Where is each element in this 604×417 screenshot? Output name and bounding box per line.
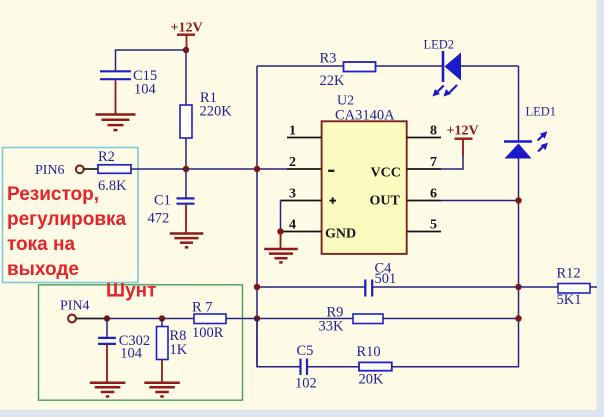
label shunt (red) [106,281,156,302]
node R9 left [254,315,260,321]
bottom page strip [0,410,604,417]
svg-text:5K1: 5K1 [557,292,582,308]
svg-text:7: 7 [430,155,437,170]
wire R8 top [161,319,163,327]
svg-text:тока на: тока на [7,234,75,255]
wire R9 row left [257,318,353,320]
ground under C15 [96,115,136,131]
svg-text:1K: 1K [170,342,188,358]
node left rail pin2 [254,166,260,172]
wire R3 to LED2 [376,65,443,67]
node R9 right [515,315,521,321]
resistor R2 [98,149,131,194]
svg-text:3: 3 [289,187,296,202]
capacitor C5 [295,343,317,392]
svg-text:R 7: R 7 [192,300,213,316]
node R8 [159,315,165,321]
pin 2 stub [287,168,322,170]
wire LED2 to right corner [461,65,519,67]
svg-text:LED2: LED2 [424,38,455,52]
wire PIN4 node to R7 [107,318,194,320]
pin 2 label [289,155,296,170]
resistor R3 [320,51,376,90]
svg-text:C1: C1 [154,193,171,209]
node C4 left [254,284,260,290]
svg-text:выходе: выходе [7,259,79,280]
wire C15 to ground [115,80,117,113]
svg-text:501: 501 [375,271,397,287]
svg-text:R3: R3 [320,51,337,67]
svg-text:PIN6: PIN6 [35,163,65,178]
svg-text:104: 104 [134,82,157,98]
pin 7 stub [407,155,441,170]
wire pin3 down to pin4 [280,201,282,232]
wire top rail y=65 [257,65,343,67]
wire C302 down [106,319,108,338]
wire R12 right stub [590,286,597,288]
svg-text:100R: 100R [192,325,224,341]
svg-text:+12V: +12V [447,124,479,139]
svg-text:U2: U2 [337,94,354,109]
wire C15 top [116,50,187,71]
wire node to ground [280,232,282,249]
svg-text:R12: R12 [557,266,581,282]
svg-text:22K: 22K [320,73,346,89]
wire rail to R12 [519,286,559,288]
node junction +12V [183,47,189,53]
wire R2 to U2 pin2 [131,168,287,170]
svg-text:R10: R10 [357,344,381,360]
pin 8 stub [407,124,441,139]
pin PIN6 [35,163,84,178]
wire right rail [518,66,520,142]
wire C5 to R10 [308,366,359,368]
svg-text:8: 8 [430,124,437,139]
wire C4 row right [373,286,519,288]
ground under C1 [170,234,204,248]
node C4 right [515,284,521,290]
svg-text:OUT: OUT [370,194,401,209]
wire pin7 to +12V [441,155,463,169]
capacitor C1 [148,193,195,227]
svg-text:1: 1 [289,124,296,139]
wire R7 to left rail [226,318,257,320]
svg-text:33K: 33K [319,319,345,335]
capacitor C15 [100,68,157,98]
svg-text:4: 4 [289,218,296,233]
wire PIN4 to R7 [76,318,107,320]
svg-text:VCC: VCC [371,166,401,181]
wire C302 to ground [106,345,108,382]
svg-text:Шунт: Шунт [106,281,156,302]
power +12V at pin7 [447,124,479,157]
svg-text:R2: R2 [98,149,115,165]
label resistor note (red) [7,184,127,280]
op-amp U2 body [322,94,407,254]
svg-text:6.8K: 6.8K [98,178,127,194]
svg-text:+12V: +12V [171,21,203,36]
resistor R7 [192,300,226,342]
wire C1 to ground [185,205,187,233]
pin PIN4 [60,299,90,323]
pin 3 stub [281,187,322,202]
svg-text:Резистор,: Резистор, [7,184,99,205]
svg-text:6: 6 [430,187,437,202]
svg-text:20K: 20K [359,372,385,388]
resistor R8 [157,327,188,360]
resistor R12 [557,266,591,309]
svg-text:2: 2 [289,155,296,170]
svg-text:C5: C5 [297,343,314,359]
wire pin6 to right rail [441,200,519,202]
svg-text:GND: GND [325,227,356,242]
wire R10 to right rail [392,366,519,368]
wire R8 to ground [161,360,163,383]
wire LED1 to bottom right rail [517,159,519,367]
wire C5 row left [257,319,300,367]
resistor R1 [180,90,232,138]
capacitor C4 [365,261,396,297]
wire left rail [256,66,258,366]
svg-text:регулировка: регулировка [7,209,127,230]
ground under U2 pins [264,249,298,262]
LED D1 [504,105,556,159]
resistor R9 [319,305,384,335]
node pin3/pin4 [277,228,283,234]
wire R9 to right rail [383,318,519,320]
svg-text:LED1: LED1 [526,105,557,119]
svg-text:CA3140A: CA3140A [335,108,395,124]
node pin6/right rail [515,197,521,203]
resistor R10 [357,344,392,388]
annotation box shunt (green) [39,285,243,400]
power +12V top [171,21,203,51]
wire node to C1 [185,169,187,198]
node R1/R2/C1 [183,166,189,172]
wire +12V to R1 [185,50,187,105]
wire C4 row left [257,286,365,288]
svg-text:472: 472 [148,211,170,227]
svg-text:220K: 220K [200,104,233,120]
LED D2 [424,38,462,97]
node C302 [104,315,110,321]
right page strip [597,0,604,410]
svg-text:PIN4: PIN4 [60,299,90,314]
capacitor C302 [98,333,150,362]
pin 4 stub [281,218,322,233]
svg-text:102: 102 [295,376,317,392]
pin 1 stub [287,124,322,139]
ground under R8 [144,383,180,397]
wire R1 to node [185,138,187,169]
wire PIN6 to R2 [84,168,98,170]
pin 5 stub [407,218,441,233]
pin 6 stub [407,187,441,202]
ground under C302 [90,383,126,397]
svg-text:104: 104 [120,346,143,362]
annotation box PIN6 (cyan) [3,148,139,283]
svg-text:5: 5 [430,218,437,233]
